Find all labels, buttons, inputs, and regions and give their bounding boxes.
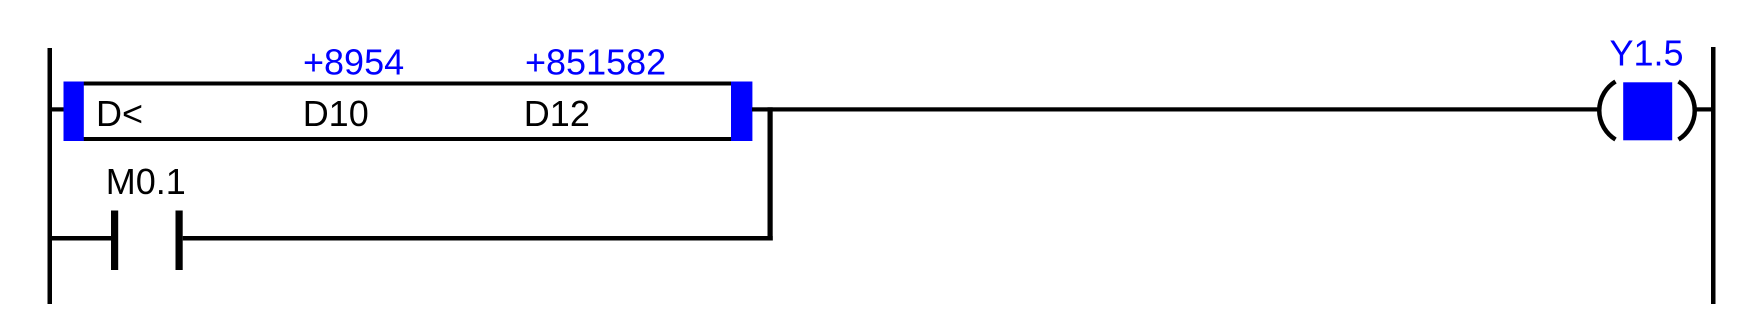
wire: compare block to coil <box>752 107 1600 111</box>
compare block D< box outline <box>66 84 751 140</box>
contact M0.1 right bar <box>176 211 183 271</box>
power-flow indicator right (blue) <box>731 82 752 142</box>
svg-text:+8954: +8954 <box>303 42 404 83</box>
svg-text:Y1.5: Y1.5 <box>1610 33 1684 74</box>
right power rail <box>1711 47 1716 304</box>
wire: coil to right rail <box>1696 107 1712 111</box>
coil right parenthesis <box>1679 82 1695 140</box>
svg-text:D10: D10 <box>303 93 369 134</box>
svg-text:M0.1: M0.1 <box>106 161 186 202</box>
svg-text:D<: D< <box>96 93 143 134</box>
svg-text:D12: D12 <box>524 93 590 134</box>
left power rail <box>48 48 53 304</box>
svg-text:+851582: +851582 <box>525 42 666 83</box>
branch junction vertical wire <box>768 107 773 240</box>
wire: left rail to compare block <box>50 107 65 111</box>
branch wire: contact M0.1 to junction <box>183 236 773 241</box>
coil energized indicator (blue square) <box>1623 82 1672 140</box>
power-flow indicator left (blue) <box>64 82 84 142</box>
contact M0.1 left bar <box>111 211 118 271</box>
branch wire: left rail to contact M0.1 <box>50 236 111 241</box>
coil left parenthesis <box>1599 82 1615 140</box>
